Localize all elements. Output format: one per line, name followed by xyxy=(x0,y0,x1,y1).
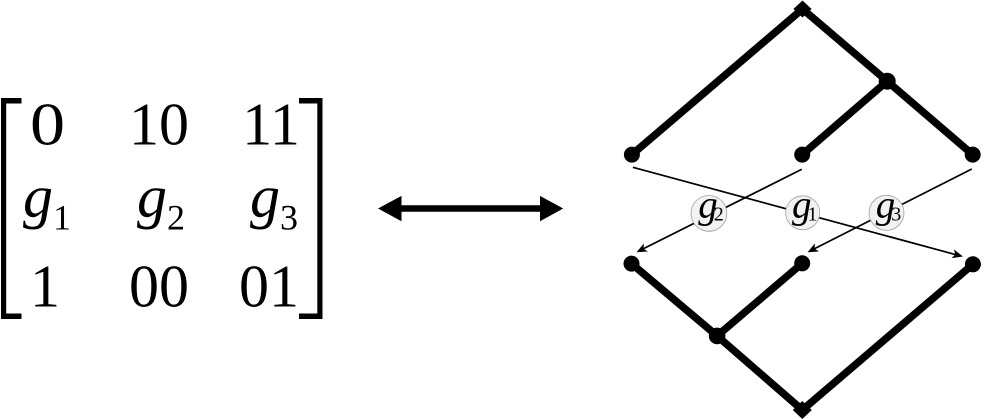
bottom tree edge middle leaf to internal xyxy=(717,263,802,336)
label circle g1 xyxy=(786,196,820,230)
matrix left bracket xyxy=(1,98,22,319)
top tree edge root to internal node xyxy=(803,9,888,81)
top tree internal node xyxy=(879,73,896,90)
bottom tree edge left leaf to internal xyxy=(632,264,718,336)
svg-text:g1: g1 xyxy=(23,164,71,238)
svg-text:g1: g1 xyxy=(792,184,818,227)
bottom tree internal node xyxy=(709,328,726,345)
arrow g2: top-middle leaf to bottom-left leaf xyxy=(642,169,802,249)
top tree edge root to left leaf xyxy=(632,9,803,155)
matrix entry 0 (row1 col1) xyxy=(30,92,65,158)
svg-text:g3: g3 xyxy=(250,164,298,238)
svg-text:g3: g3 xyxy=(876,184,902,227)
top tree left leaf xyxy=(624,147,640,163)
double-headed arrow xyxy=(378,196,563,221)
arrow g1: top-left leaf to bottom-right leaf xyxy=(633,167,957,255)
bottom tree edge internal to root xyxy=(717,336,802,410)
top tree root diamond xyxy=(793,1,811,18)
arrow g3: top-right leaf to bottom-middle leaf xyxy=(813,169,972,249)
bottom tree right leaf xyxy=(965,256,981,272)
top tree edge internal to middle leaf xyxy=(802,81,887,154)
svg-text:0: 0 xyxy=(30,92,65,158)
bottom tree edge right leaf to root xyxy=(802,264,973,410)
svg-text:10: 10 xyxy=(129,92,189,158)
svg-text:g2: g2 xyxy=(698,184,724,227)
svg-text:00: 00 xyxy=(129,254,189,320)
bottom tree root diamond xyxy=(793,401,812,419)
matrix right bracket xyxy=(299,98,323,319)
label circle g2 xyxy=(691,196,727,232)
top tree edge internal to right leaf xyxy=(887,81,973,154)
bottom tree left leaf xyxy=(624,256,640,272)
top tree middle leaf xyxy=(794,147,810,163)
svg-text:1: 1 xyxy=(30,254,60,320)
svg-text:01: 01 xyxy=(239,254,299,320)
svg-text:11: 11 xyxy=(242,92,300,158)
label circle g3 xyxy=(869,195,904,230)
bottom tree middle leaf xyxy=(794,255,810,271)
top tree right leaf xyxy=(965,147,981,163)
svg-text:g2: g2 xyxy=(137,164,185,238)
